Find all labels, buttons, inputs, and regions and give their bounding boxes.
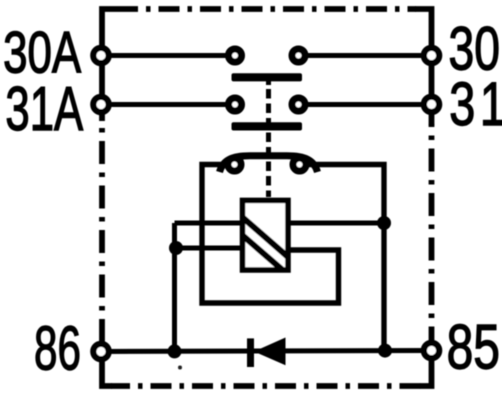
small ink speck on scan: [178, 366, 182, 370]
relay coil K1 winding: [243, 200, 289, 270]
relay housing outline bottom (dash-dot): [111, 383, 421, 389]
contact circle row2 right: [292, 98, 305, 111]
svg-text:31: 31: [449, 70, 502, 138]
changeover contact bridge arc: [220, 156, 318, 172]
housing corner top-right (solid): [415, 9, 432, 125]
junction node coil left lower: [169, 241, 183, 255]
housing corner bottom-right (solid): [420, 337, 432, 386]
wire terminal 30A to contact: [101, 53, 228, 58]
wire vertical branch left down to 86: [172, 223, 177, 351]
wire contact to terminal 30: [305, 53, 432, 58]
junction node on 86 wire: [168, 344, 182, 358]
diode V1 cathode bar: [247, 338, 254, 367]
contact circle row1 left: [229, 49, 242, 62]
terminal 30A: [93, 48, 108, 63]
junction node on 85 wire: [378, 344, 392, 358]
housing corner top-left (solid): [102, 9, 133, 121]
wire terminal 31A to contact: [101, 102, 228, 107]
contact circle row3 left: [228, 158, 241, 171]
junction node right vertical upper: [377, 216, 391, 230]
contact circle row1 right: [292, 49, 305, 62]
coil stripe 1: [243, 217, 289, 257]
relay housing outline left (dash-dot): [99, 120, 105, 333]
contact bridge bar lower: [232, 122, 303, 130]
svg-text:86: 86: [34, 315, 81, 384]
wire contact to terminal 31: [305, 102, 432, 107]
coil stripe 2: [243, 235, 283, 270]
diode V1 anode triangle: [254, 338, 286, 366]
mechanical actuating link (dashed): [266, 81, 271, 85]
terminal 30: [424, 48, 439, 63]
relay housing outline right (dash-dot): [429, 124, 435, 337]
terminal 85: [424, 343, 439, 358]
wire node to coil left lower: [175, 246, 243, 251]
wire changeover right contact down to node at bottom: [305, 165, 384, 351]
contact bridge bar upper: [232, 73, 303, 81]
terminal 31: [424, 97, 439, 112]
housing corner bottom-left (solid): [102, 333, 112, 386]
wire horizontal through coil upper: [175, 221, 385, 226]
contact circle row2 left: [229, 98, 242, 111]
relay housing outline top (dash-dot): [133, 6, 416, 12]
svg-text:85: 85: [447, 311, 500, 382]
terminal 31A: [93, 97, 108, 112]
svg-text:31A: 31A: [5, 74, 83, 143]
contact circle row3 right: [293, 158, 306, 171]
wire changeover left contact down and around to coil right side: [202, 165, 339, 304]
wire bottom 86 to 85: [101, 351, 432, 352]
terminal 86: [93, 344, 108, 359]
